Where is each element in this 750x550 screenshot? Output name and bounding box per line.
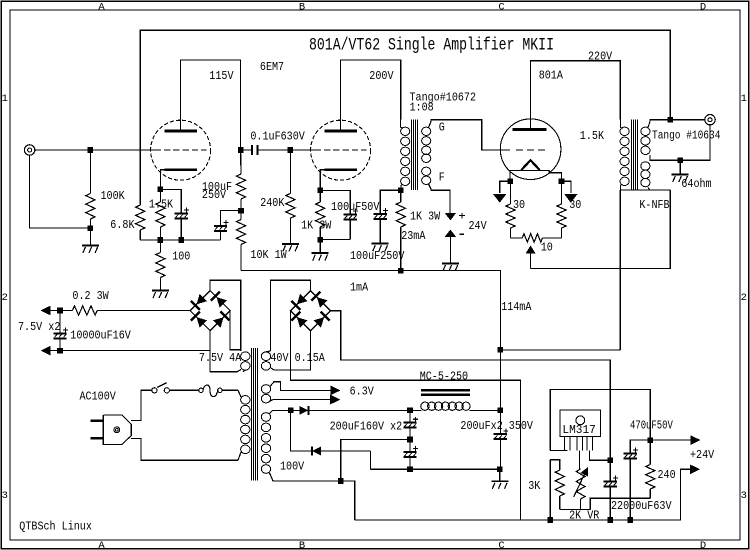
wire input jack shell return bbox=[30, 155, 91, 228]
wire leg2 to VR2 bbox=[579, 451, 581, 470]
svg-text:801A/VT62 Single Amplifier MKI: 801A/VT62 Single Amplifier MKII bbox=[309, 36, 554, 56]
wire to ground bbox=[319, 240, 321, 253]
svg-text:B: B bbox=[299, 540, 305, 550]
wire tap to ground bbox=[679, 160, 681, 174]
wire output jack return bbox=[680, 125, 710, 160]
wire T2 secondary tap bbox=[650, 155, 680, 160]
svg-text:100V: 100V bbox=[280, 460, 305, 474]
ground below D4 bbox=[442, 262, 459, 264]
regulator U3 LM317 package bbox=[560, 410, 601, 437]
node rail/C1 junction bbox=[178, 237, 184, 243]
wire BR1 winding bottom lead bbox=[210, 370, 241, 372]
svg-text:100: 100 bbox=[172, 250, 190, 264]
AC plug bbox=[103, 415, 131, 444]
svg-text:64ohm: 64ohm bbox=[681, 177, 711, 191]
svg-text:10000uF16V: 10000uF16V bbox=[70, 329, 131, 343]
wire K-NFB winding bottom lead bbox=[648, 188, 670, 191]
svg-text:1.5K: 1.5K bbox=[149, 198, 174, 212]
wire T1 secondary G lead to 801A grid bbox=[429, 120, 511, 150]
svg-text:470uF50V: 470uF50V bbox=[630, 419, 673, 433]
node rail/1.5K junction bbox=[158, 237, 164, 243]
node filament DC minus bbox=[57, 348, 63, 354]
node LM317 input junction bbox=[607, 458, 613, 464]
node secondary tap junction bbox=[677, 157, 683, 163]
resistor R4 100 bbox=[159, 240, 161, 253]
resistor R8 1K 3W cathode bbox=[319, 190, 321, 202]
svg-text:A: A bbox=[98, 540, 105, 550]
svg-text:115V: 115V bbox=[209, 69, 234, 83]
wire switch to fuse bbox=[169, 389, 198, 391]
arrow 7.5V minus out bbox=[51, 350, 60, 352]
ground below R7 bbox=[282, 243, 299, 245]
resistor R1 100K bbox=[86, 194, 95, 220]
node T1 primary return junction bbox=[398, 187, 404, 193]
resistor R5 plate load upper bbox=[236, 174, 245, 199]
node ground rail right bbox=[497, 467, 503, 473]
node return rail 3K bbox=[547, 517, 553, 523]
node input/100K junction bbox=[88, 147, 94, 153]
transformer T1 interstage Tango#10672 bbox=[401, 120, 403, 129]
wire filament center to K-NFB bbox=[531, 190, 671, 268]
arrow 6.3V upper bbox=[331, 386, 341, 396]
capacitor C8 200uF160V upper bbox=[409, 410, 411, 422]
resistor R2 1.5K cathode bbox=[159, 189, 161, 202]
node U1b cathode junction bbox=[317, 188, 323, 194]
label plus bbox=[459, 215, 465, 217]
node B+ junction 114mA bbox=[498, 347, 504, 353]
capacitor C10 22000uF63V bbox=[609, 460, 611, 481]
svg-text:1K 3W: 1K 3W bbox=[301, 219, 332, 233]
capacitor C9 200uF160V lower bbox=[403, 451, 416, 453]
resistor R12 0.2 3W bbox=[72, 306, 97, 315]
wire U1a plate lead / 115V loop bbox=[181, 60, 241, 150]
wire filament right lead bbox=[549, 171, 561, 182]
node output jack junction bbox=[667, 117, 673, 123]
svg-text:QTBSch Linux: QTBSch Linux bbox=[19, 519, 92, 533]
svg-text:114mA: 114mA bbox=[501, 300, 532, 314]
svg-text:6.8K: 6.8K bbox=[110, 218, 135, 232]
svg-text:D: D bbox=[700, 540, 706, 550]
wire U1a cathode lead bbox=[160, 170, 164, 190]
wire U1b plate lead / 200V loop bbox=[341, 60, 401, 131]
wire NFB top rail from output jack node to 6.8K bbox=[140, 30, 670, 205]
svg-text:D: D bbox=[700, 1, 706, 13]
svg-text:30: 30 bbox=[569, 198, 581, 212]
wire leg1 to output net bbox=[550, 450, 567, 452]
ground below C5 bbox=[372, 243, 389, 245]
wire doubler return jog bbox=[369, 451, 371, 469]
wire 6.3V top lead bbox=[270, 382, 331, 391]
svg-text:0.1uF630V: 0.1uF630V bbox=[250, 130, 305, 144]
resistor R11 30 hum right bbox=[561, 181, 563, 204]
wire ADJ network to 240 bottom bbox=[581, 509, 591, 511]
transformer T3 power bbox=[251, 348, 253, 481]
winding 100V bbox=[261, 413, 270, 422]
svg-text:1K 3W: 1K 3W bbox=[410, 210, 441, 224]
svg-text:200uF160V x2: 200uF160V x2 bbox=[330, 420, 403, 434]
triode U1b 6EM7 second section bbox=[311, 120, 371, 180]
wire leg3 to input node bbox=[590, 451, 611, 461]
svg-text:3: 3 bbox=[741, 490, 747, 502]
wire cathode NFB rail bbox=[140, 239, 220, 241]
ground 64ohm tap bbox=[672, 173, 689, 175]
node D1 anode junction bbox=[288, 408, 294, 414]
node return rail C10 bbox=[607, 517, 613, 523]
transformer T2 output Tango#10634 bbox=[620, 120, 622, 129]
capacitor C2 0.1uF630V coupling bbox=[241, 149, 252, 151]
capacitor C4 100uF50V bbox=[320, 190, 350, 214]
winding 6.3V bbox=[261, 385, 270, 394]
svg-text:+24V: +24V bbox=[690, 448, 715, 462]
wire main ground rail bbox=[370, 468, 499, 470]
svg-text:250V: 250V bbox=[202, 188, 227, 202]
wire input jack to grid of U1 bbox=[35, 149, 155, 151]
fuse F1 bbox=[199, 388, 203, 392]
capacitor C11 470uF50V bbox=[630, 440, 650, 453]
ground below U1b cathode bbox=[312, 252, 329, 254]
winding AC primary bbox=[241, 396, 250, 405]
arrow 6.3V lower bbox=[330, 395, 340, 405]
node U1a cathode junction bbox=[158, 187, 164, 193]
wire BR2 left minus bbox=[291, 311, 521, 520]
svg-text:0.2 3W: 0.2 3W bbox=[72, 289, 109, 303]
wire K-NFB box top edge bbox=[620, 189, 650, 191]
wire BR2 right plus to LM317 raw DC bbox=[331, 311, 611, 461]
triode U1a 6EM7 first section bbox=[151, 120, 211, 180]
resistor R9 1K 3W primary return bbox=[400, 190, 402, 202]
wire B+ from choke junction up bbox=[499, 350, 501, 411]
LM317 leg 2 bbox=[576, 437, 578, 451]
node filament DC plus bbox=[57, 308, 63, 314]
svg-text:B: B bbox=[299, 1, 305, 13]
resistor R6 10K 1W bbox=[236, 220, 245, 245]
power supply: bridge BR1 7.5V bbox=[190, 291, 230, 331]
winding 40V 0.15A bbox=[261, 352, 270, 361]
LM317 leg 3 bbox=[586, 437, 588, 451]
node filament right junction bbox=[559, 179, 565, 185]
resistor R10 30 hum left bbox=[509, 181, 511, 204]
svg-text:AC100V: AC100V bbox=[80, 390, 117, 404]
node decoupling junction bbox=[238, 208, 244, 214]
wiper arrow of VR1 bbox=[526, 245, 536, 253]
capacitor C6 10000uF16V bbox=[59, 311, 61, 334]
capacitor C3 100uF250V decoupling bbox=[221, 211, 242, 226]
wire +24V arrow out bbox=[650, 439, 690, 441]
node U2 grid junction bbox=[288, 147, 294, 153]
svg-text:24V: 24V bbox=[469, 219, 488, 233]
svg-text:2: 2 bbox=[741, 292, 747, 304]
svg-text:2: 2 bbox=[2, 292, 8, 304]
wire plug neutral to T3 primary bbox=[131, 439, 238, 461]
wire T2 secondary top lead bbox=[648, 120, 670, 128]
svg-text:801A: 801A bbox=[539, 69, 564, 83]
resistor R14 240 bbox=[649, 440, 651, 464]
potentiometer VR2 2K bbox=[576, 469, 585, 499]
output jack J2 bbox=[705, 115, 715, 125]
winding 7.5V 4A bbox=[241, 352, 250, 361]
wire BR2 top AC bbox=[270, 280, 310, 351]
svg-text:40V 0.15A: 40V 0.15A bbox=[270, 351, 325, 365]
wire T1 primary return to decoupling cap C5 bbox=[380, 190, 401, 214]
ground main supply bbox=[491, 480, 508, 482]
wire C1 bottom lead bbox=[180, 218, 182, 240]
svg-text:22000uF63V: 22000uF63V bbox=[611, 499, 672, 513]
svg-text:K-NFB: K-NFB bbox=[639, 198, 669, 212]
arrow 7.5V plus out bbox=[51, 310, 60, 312]
wire BR1 right AC bbox=[230, 311, 241, 350]
wire filament left lead bbox=[509, 171, 511, 182]
capacitor C7 200uFx2 350V bbox=[499, 410, 501, 434]
svg-text:3: 3 bbox=[2, 490, 8, 502]
bridge BR2 40V bbox=[291, 291, 331, 331]
svg-text:7.5V 4A: 7.5V 4A bbox=[199, 351, 242, 365]
wire R6 bottom to B+ rail bbox=[240, 245, 242, 271]
wire 24V return rail bbox=[355, 469, 691, 520]
ground below R4 bbox=[152, 290, 169, 292]
svg-text:6EM7: 6EM7 bbox=[260, 60, 284, 74]
diode D1 doubler series bbox=[291, 409, 300, 411]
wire 3K/VR2 bottom tie bbox=[560, 509, 581, 511]
wire fuse to T3 primary bbox=[222, 389, 238, 391]
svg-text:10K 1W: 10K 1W bbox=[250, 248, 287, 262]
wire B+ rail first stages bbox=[241, 271, 500, 350]
arrow filament supply right bbox=[562, 181, 571, 193]
node 23mA junction bbox=[398, 268, 404, 274]
svg-text:1mA: 1mA bbox=[350, 281, 369, 295]
resistor R3 6.8K NFB bbox=[136, 205, 145, 230]
wire 100K bottom lead bbox=[89, 219, 91, 245]
LM317 leg 1 bbox=[564, 437, 566, 451]
capacitor C5 100uF250V bbox=[374, 213, 387, 215]
svg-text:240: 240 bbox=[658, 468, 676, 482]
svg-text:MC-5-250: MC-5-250 bbox=[420, 370, 468, 384]
node filament left junction bbox=[508, 179, 514, 185]
diode D2 doubler shunt bbox=[291, 410, 312, 451]
svg-text:10: 10 bbox=[541, 241, 553, 255]
wire 6.8K bottom lead bbox=[139, 230, 141, 240]
svg-text:1: 1 bbox=[741, 93, 747, 105]
potentiometer VR1 10 hum balance bbox=[510, 237, 522, 239]
node return rail C11 bbox=[627, 517, 633, 523]
wire BR1 left DC to R12 bbox=[97, 310, 190, 312]
wire U1b cathode lead bbox=[320, 170, 324, 191]
arrow filament supply left bbox=[500, 181, 511, 193]
svg-text:1.5K: 1.5K bbox=[580, 129, 605, 143]
svg-text:240K: 240K bbox=[260, 196, 285, 210]
input jack J1 bbox=[24, 145, 34, 155]
wire BR1 bottom DC bbox=[209, 331, 211, 372]
node ground rail left bbox=[407, 467, 413, 473]
resistor R7 240K grid leak bbox=[286, 193, 295, 218]
svg-text:200uFx2 350V: 200uFx2 350V bbox=[460, 419, 533, 433]
wire T2 primary bottom lead down to B+ node bbox=[619, 190, 621, 350]
node doubler mid junction bbox=[407, 437, 413, 443]
wire plug hot to switch bbox=[131, 390, 152, 420]
wire to output jack bbox=[670, 119, 705, 121]
node U1a plate junction bbox=[238, 147, 244, 153]
wire grid junction to U2 bbox=[290, 149, 314, 151]
svg-text:F: F bbox=[439, 171, 445, 185]
svg-text:A: A bbox=[98, 1, 105, 13]
choke L1 MC-5-250 bbox=[407, 408, 413, 414]
svg-text:100K: 100K bbox=[101, 189, 126, 203]
svg-text:100uF250V: 100uF250V bbox=[350, 249, 405, 263]
svg-text:C: C bbox=[498, 1, 504, 13]
resistor R13 3K bbox=[550, 460, 560, 470]
svg-text:200V: 200V bbox=[369, 69, 394, 83]
wire 801A plate lead / 220V run bbox=[531, 61, 621, 130]
switch SW1 bbox=[152, 388, 157, 393]
svg-text:100uF50V: 100uF50V bbox=[331, 200, 380, 214]
wire BR1 top AC bbox=[210, 280, 241, 351]
arrow 24V supply minus bbox=[445, 230, 457, 237]
svg-text:1: 1 bbox=[2, 93, 8, 105]
svg-text:1:08: 1:08 bbox=[410, 101, 434, 115]
capacitor C1 100uF cathode bypass bbox=[175, 212, 188, 214]
svg-text:6.3V: 6.3V bbox=[350, 384, 375, 398]
svg-text:23mA: 23mA bbox=[401, 229, 426, 243]
svg-text:LM317: LM317 bbox=[562, 423, 596, 437]
svg-text:C: C bbox=[498, 540, 504, 550]
svg-text:G: G bbox=[439, 121, 445, 135]
svg-text:3K: 3K bbox=[528, 479, 541, 493]
wire doubler mid to winding bottom bbox=[341, 440, 410, 482]
arrow 24V supply plus bbox=[445, 213, 457, 221]
label minus bbox=[460, 233, 465, 235]
wire T1 secondary F lead bbox=[429, 184, 451, 213]
wire cathode junction to bypass cap C1 bbox=[160, 189, 181, 213]
wire LM317 output net bbox=[609, 389, 611, 391]
wire arrow to ground bbox=[449, 237, 451, 263]
wire 100K top lead bbox=[89, 150, 91, 194]
node 100K bottom junction bbox=[88, 225, 94, 231]
wire 6.3V bottom lead bbox=[270, 400, 330, 401]
svg-text:220V: 220V bbox=[588, 50, 613, 64]
node U1b cathode ground junction bbox=[317, 237, 323, 243]
wire BR2 bottom AC bbox=[271, 331, 311, 370]
node choke right junction bbox=[498, 408, 504, 414]
tube U2 801A output triode bbox=[500, 119, 561, 180]
svg-text:7.5V x2: 7.5V x2 bbox=[18, 320, 60, 334]
wire BR1 minus rail bbox=[60, 350, 210, 352]
ground below 100K bbox=[82, 244, 99, 246]
svg-text:30: 30 bbox=[513, 198, 525, 212]
wire to main ground bbox=[499, 469, 501, 481]
node +24V output junction bbox=[648, 437, 654, 443]
filament of 801A bbox=[521, 160, 539, 170]
